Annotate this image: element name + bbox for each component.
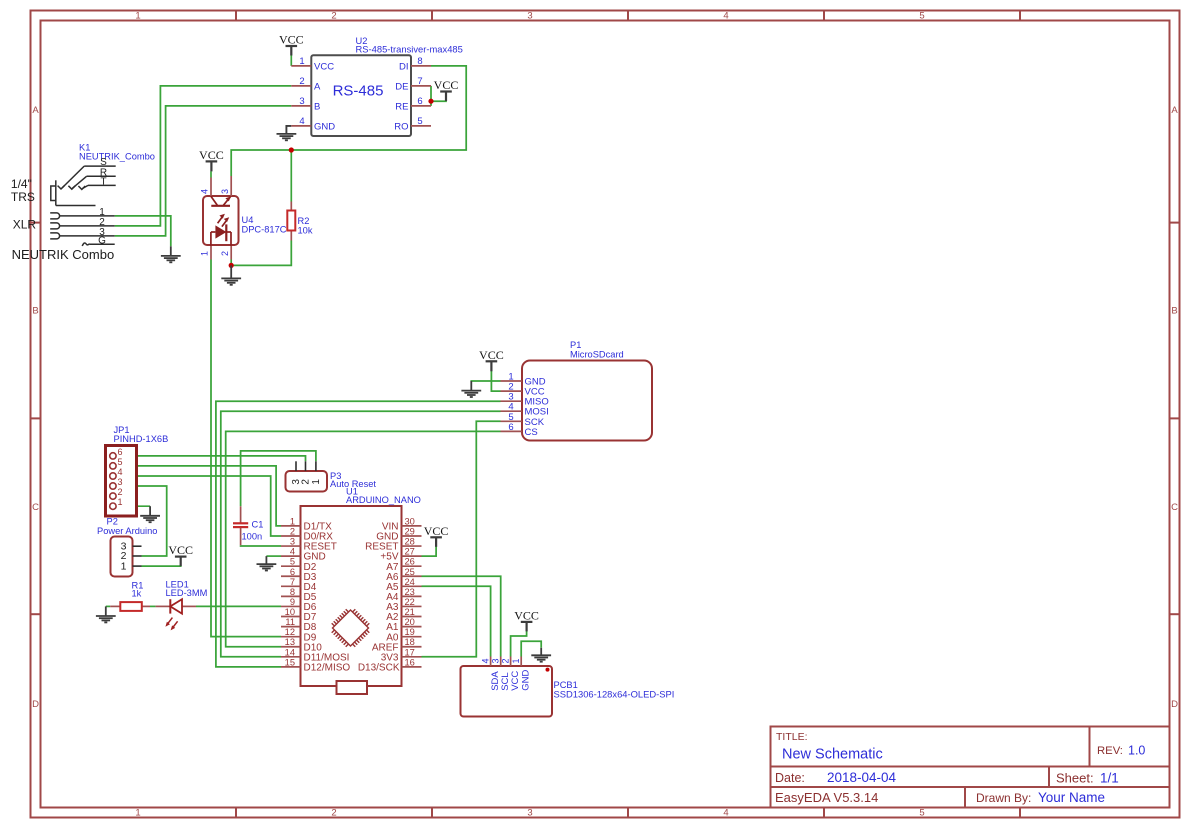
svg-text:11: 11 [285, 617, 295, 627]
svg-text:A: A [32, 105, 39, 116]
svg-text:G: G [98, 235, 106, 246]
wire P1.MOSI to U1.D11/MOSI [221, 411, 501, 657]
connector P3 Auto Reset [286, 461, 377, 491]
svg-text:P2: P2 [107, 517, 118, 527]
svg-text:D: D [32, 699, 39, 710]
wire JP1 pin1 to ground [117, 505, 150, 507]
ground R1 [96, 606, 116, 622]
svg-text:New Schematic: New Schematic [782, 747, 883, 763]
svg-text:1: 1 [299, 56, 304, 67]
svg-text:1: 1 [135, 11, 140, 22]
svg-text:7: 7 [290, 577, 295, 587]
wire R1 left to ground [106, 605, 110, 607]
svg-text:12: 12 [285, 627, 295, 637]
svg-text:21: 21 [405, 607, 415, 617]
optocoupler U4 DPC-817C [200, 176, 287, 260]
svg-text:EasyEDA V5.3.14: EasyEDA V5.3.14 [775, 790, 878, 805]
svg-text:1k: 1k [132, 588, 142, 598]
wire R2 bottom to U4 pin2 node [231, 241, 291, 266]
svg-text:B: B [32, 306, 38, 317]
svg-text:T: T [100, 177, 106, 188]
svg-text:1.0: 1.0 [1128, 743, 1145, 757]
svg-text:17: 17 [405, 647, 415, 657]
svg-text:C1: C1 [252, 520, 264, 530]
svg-text:16: 16 [405, 657, 415, 667]
svg-text:2018-04-04: 2018-04-04 [827, 770, 897, 785]
svg-text:4: 4 [118, 467, 123, 477]
svg-text:MicroSDcard: MicroSDcard [570, 350, 624, 360]
svg-text:VCC: VCC [434, 78, 459, 92]
svg-text:VCC: VCC [510, 671, 521, 691]
wire U4 pin2 stub to node [230, 260, 232, 266]
svg-text:R2: R2 [298, 216, 310, 226]
svg-text:Drawn By:: Drawn By: [976, 791, 1031, 805]
svg-text:RS-485-transiver-max485: RS-485-transiver-max485 [356, 44, 463, 55]
svg-text:NEUTRIK Combo: NEUTRIK Combo [12, 247, 115, 262]
svg-text:ARDUINO_NANO: ARDUINO_NANO [346, 495, 421, 505]
connector P2 Power Arduino [97, 517, 157, 577]
svg-text:27: 27 [405, 547, 415, 557]
svg-text:2: 2 [331, 11, 336, 22]
svg-text:TRS: TRS [11, 190, 35, 204]
svg-text:5: 5 [919, 11, 924, 22]
wire P2 pin1 to VCC flag [142, 565, 181, 567]
wire U1.A6 to PCB1.SCL [422, 576, 501, 656]
connector JP1 PINHD-1X6B [106, 425, 169, 516]
svg-text:24: 24 [405, 577, 415, 587]
svg-text:1: 1 [135, 808, 140, 819]
wire PCB1.GND to ground [521, 641, 541, 656]
svg-text:1: 1 [118, 497, 123, 507]
svg-text:2: 2 [301, 479, 312, 485]
svg-text:4: 4 [200, 189, 210, 194]
junction U4.2/R2/GND [229, 263, 234, 268]
svg-text:C: C [1171, 502, 1178, 513]
svg-text:CS: CS [525, 427, 538, 438]
LED LED1 LED-3MM [156, 579, 208, 630]
ground U2 GND [286, 126, 291, 134]
wire P1.GND to ground [471, 380, 500, 382]
wire R1 LED1 link [150, 605, 156, 607]
svg-text:VCC: VCC [168, 543, 193, 557]
svg-text:2: 2 [118, 487, 123, 497]
svg-text:5: 5 [290, 557, 295, 567]
svg-text:1: 1 [200, 251, 210, 256]
wire U1 GND pin4 to ground [266, 555, 281, 557]
svg-text:1: 1 [311, 479, 322, 485]
resistor R2 10k [287, 202, 313, 241]
svg-text:4: 4 [723, 808, 728, 819]
wire P1.MISO to U1.D12/MISO [216, 401, 501, 667]
svg-text:3: 3 [491, 658, 501, 663]
wire LED1 anode to U1.D6 [196, 605, 281, 607]
wire U4 pin1 to U1.D9 [211, 260, 281, 637]
svg-text:VCC: VCC [279, 33, 304, 47]
svg-text:2: 2 [299, 76, 304, 87]
svg-text:30: 30 [405, 516, 415, 526]
svg-text:6: 6 [417, 96, 422, 107]
svg-text:6: 6 [508, 422, 513, 433]
connector P1 MicroSDcard [501, 340, 653, 441]
svg-text:DPC-817C: DPC-817C [242, 224, 287, 234]
svg-text:A: A [314, 81, 321, 92]
ground XLR pin1 [161, 246, 181, 262]
capacitor C1 100n [233, 506, 263, 545]
wire C1 top to P3 pin1 [241, 451, 316, 506]
wire JP1 pin3 to P2 pin2 [117, 486, 167, 556]
svg-text:29: 29 [405, 526, 415, 536]
module PCB1 SSD1306 OLED [461, 657, 675, 717]
junction DE/RE/VCC [428, 99, 433, 104]
svg-text:28: 28 [405, 537, 415, 547]
svg-text:6: 6 [290, 567, 295, 577]
svg-text:B: B [314, 101, 320, 112]
svg-text:3: 3 [290, 537, 295, 547]
svg-text:26: 26 [405, 557, 415, 567]
svg-text:VCC: VCC [199, 148, 224, 162]
svg-text:3: 3 [118, 477, 123, 487]
svg-text:DE: DE [395, 81, 408, 92]
svg-text:10k: 10k [298, 226, 313, 236]
svg-text:3: 3 [527, 11, 532, 22]
wire P1.CS to U1.D10 [226, 431, 501, 646]
svg-text:8: 8 [290, 587, 295, 597]
wire U2 VCC pin1 from VCC flag [290, 56, 292, 66]
svg-text:2: 2 [220, 251, 230, 256]
svg-text:6: 6 [118, 447, 123, 457]
svg-text:25: 25 [405, 567, 415, 577]
svg-text:PINHD-1X6B: PINHD-1X6B [114, 434, 169, 444]
ground U4 pin2 [221, 265, 241, 284]
wire U2.DI to U4 pin3 / R2 [231, 66, 466, 176]
svg-text:Your Name: Your Name [1038, 790, 1105, 805]
svg-text:15: 15 [285, 657, 295, 667]
svg-text:5: 5 [919, 808, 924, 819]
svg-text:1: 1 [290, 516, 295, 526]
wire U4 pin4 to VCC flag [210, 171, 212, 177]
svg-text:14: 14 [285, 647, 295, 657]
svg-text:RS-485: RS-485 [333, 83, 384, 100]
svg-text:3: 3 [527, 808, 532, 819]
svg-text:VCC: VCC [479, 348, 504, 362]
wire JP1 pin4 to U1.D0/RX [117, 476, 281, 536]
svg-text:DI: DI [399, 61, 409, 72]
svg-text:5: 5 [417, 116, 422, 127]
svg-text:XLR: XLR [13, 217, 37, 231]
svg-text:D12/MISO: D12/MISO [304, 662, 351, 673]
svg-text:TITLE:: TITLE: [776, 731, 808, 743]
svg-text:A: A [1171, 105, 1178, 116]
svg-text:REV:: REV: [1097, 745, 1123, 757]
svg-text:4: 4 [290, 547, 295, 557]
svg-text:20: 20 [405, 617, 415, 627]
svg-text:1/1: 1/1 [1100, 771, 1119, 786]
svg-text:100n: 100n [242, 532, 263, 542]
ground PCB1 GND [531, 648, 551, 662]
svg-text:10: 10 [285, 607, 295, 617]
svg-text:22: 22 [405, 597, 415, 607]
op-amp U2 RS-485 transceiver MAX485 [291, 36, 463, 136]
junction DI/R2 [289, 147, 294, 152]
wire PCB1.VCC from VCC flag [511, 631, 527, 657]
svg-text:VCC: VCC [424, 524, 449, 538]
wire U2.DE to U2.RE and VCC [430, 86, 432, 106]
svg-text:3: 3 [220, 189, 230, 194]
wire P1.SCK to U1.3V3 [422, 421, 501, 657]
wire JP1 pin6 to P3 pin2 [117, 456, 306, 461]
svg-text:D13/SCK: D13/SCK [358, 662, 400, 673]
svg-text:3: 3 [299, 96, 304, 107]
svg-text:VCC: VCC [514, 609, 539, 623]
svg-text:7: 7 [417, 76, 422, 87]
wire U2.A to XLR pin2 [115, 86, 292, 226]
svg-text:4: 4 [299, 116, 304, 127]
svg-text:2: 2 [501, 658, 511, 663]
svg-text:C: C [32, 502, 39, 513]
svg-text:VCC: VCC [314, 61, 334, 72]
connector K1 NEUTRIK_Combo [11, 143, 155, 262]
svg-text:4: 4 [723, 11, 728, 22]
svg-text:2: 2 [290, 526, 295, 536]
svg-text:SSD1306-128x64-OLED-SPI: SSD1306-128x64-OLED-SPI [554, 689, 675, 700]
wire P1.VCC from VCC flag [491, 371, 500, 391]
svg-text:NEUTRIK_Combo: NEUTRIK_Combo [79, 152, 155, 162]
ground JP1 pin1 [140, 506, 160, 522]
wire U1.A5 to PCB1.SDA [422, 586, 491, 656]
svg-text:18: 18 [405, 637, 415, 647]
svg-text:RO: RO [394, 121, 408, 132]
svg-text:5: 5 [118, 457, 123, 467]
svg-text:4: 4 [481, 658, 491, 663]
wire JP1 pin5 to U1.D1/TX [117, 466, 281, 526]
svg-text:19: 19 [405, 627, 415, 637]
svg-text:9: 9 [290, 597, 295, 607]
svg-text:B: B [1171, 306, 1177, 317]
svg-text:Sheet:: Sheet: [1056, 771, 1094, 786]
svg-text:Power Arduino: Power Arduino [97, 526, 157, 536]
wire +5V pin27 to VCC flag [422, 547, 437, 557]
svg-text:2: 2 [331, 808, 336, 819]
wire XLR pin1 to ground [115, 216, 171, 246]
svg-text:Date:: Date: [775, 771, 805, 785]
ground U1 GND [257, 556, 277, 570]
IC U1 ARDUINO_NANO [281, 486, 422, 694]
svg-text:13: 13 [285, 637, 295, 647]
ground P1 GND [461, 381, 481, 397]
wire U2.B to XLR pin3 [115, 106, 292, 236]
svg-text:8: 8 [417, 56, 422, 67]
svg-text:RE: RE [395, 101, 408, 112]
svg-text:P1: P1 [570, 340, 581, 350]
svg-text:D: D [1171, 699, 1178, 710]
svg-text:1: 1 [121, 560, 127, 572]
resistor R1 1k [110, 581, 150, 611]
svg-text:GND: GND [520, 670, 531, 691]
svg-text:23: 23 [405, 587, 415, 597]
wire C1 bottom to U1.RESET [241, 544, 281, 547]
svg-text:1: 1 [511, 658, 521, 663]
svg-text:LED-3MM: LED-3MM [166, 588, 208, 598]
wire R2 top to DI net [290, 150, 292, 202]
svg-text:GND: GND [314, 121, 335, 132]
